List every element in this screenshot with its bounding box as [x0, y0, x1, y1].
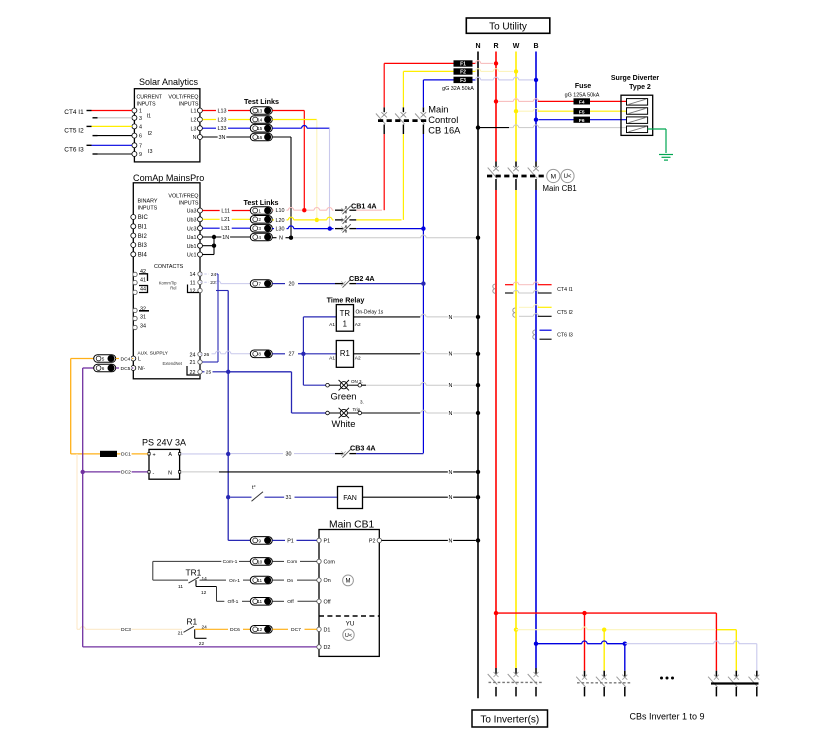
- svg-text:8: 8: [258, 352, 261, 357]
- wire L33: [202, 125, 250, 132]
- wire blue feeder row to inverters: [534, 641, 757, 671]
- motor drive M of Main CB1: [547, 169, 560, 182]
- wire L30 row: [272, 226, 425, 233]
- test link 3: [250, 224, 272, 232]
- svg-text:3N: 3N: [219, 135, 226, 141]
- svg-text:1N: 1N: [222, 235, 229, 241]
- label Main Control CB 16A: [428, 105, 461, 136]
- svg-text:Test Links: Test Links: [244, 97, 279, 106]
- svg-text:31: 31: [286, 495, 292, 501]
- svg-text:L30: L30: [276, 227, 285, 233]
- svg-text:VOLT/FREQ: VOLT/FREQ: [168, 194, 198, 200]
- wire riser yellow to Main Control CB: [402, 71, 404, 220]
- wire DC5 label: [116, 365, 134, 372]
- svg-text:A: A: [168, 452, 172, 458]
- test link 5: [94, 355, 116, 363]
- test link 1: [250, 207, 272, 215]
- svg-text:CT5 I2: CT5 I2: [64, 128, 84, 135]
- svg-text:L21: L21: [221, 217, 230, 223]
- svg-text:DC4: DC4: [121, 356, 131, 362]
- svg-text:21: 21: [190, 360, 196, 366]
- wire P2 to N: [382, 537, 481, 544]
- svg-text:BINARY: BINARY: [138, 199, 158, 205]
- svg-text:ExtendNet: ExtendNet: [162, 361, 182, 366]
- wire TR A2 to N: [354, 314, 481, 321]
- svg-text:N/-: N/-: [138, 366, 145, 372]
- svg-text:BI3: BI3: [138, 243, 148, 249]
- svg-text:34: 34: [140, 324, 146, 330]
- label Time Relay: [327, 296, 365, 305]
- pins ComAp KommTip relay 14,11,12: [188, 272, 203, 295]
- svg-text:11: 11: [257, 599, 262, 604]
- wire 27: [272, 351, 305, 358]
- svg-text:ComAp MainsPro: ComAp MainsPro: [133, 173, 204, 183]
- svg-text:41: 41: [140, 277, 146, 283]
- wire CT4 I1 pair to Solar Analytics: [64, 109, 132, 118]
- fuse F4: [574, 98, 591, 105]
- fuse F2: [454, 68, 473, 75]
- svg-text:L2: L2: [191, 118, 197, 124]
- svg-text:N: N: [279, 236, 283, 242]
- svg-text:Ub1: Ub1: [187, 244, 197, 250]
- svg-text:26: 26: [204, 352, 210, 358]
- svg-text:On-Delay 1s: On-Delay 1s: [356, 310, 384, 316]
- svg-text:I1: I1: [147, 114, 152, 120]
- wire DC7: [272, 627, 317, 634]
- current transformer CT6: [533, 330, 573, 339]
- svg-text:A1: A1: [329, 355, 335, 361]
- svg-text:A2: A2: [355, 322, 361, 328]
- svg-text:ON 3.: ON 3.: [351, 379, 363, 384]
- label Fuse gG 125A 50kA: [565, 83, 600, 99]
- svg-text:R1: R1: [340, 349, 350, 358]
- svg-text:W: W: [513, 43, 520, 50]
- wire 25 row pin22 to white feed: [202, 369, 291, 413]
- wire L11: [202, 208, 250, 215]
- svg-text:M: M: [346, 579, 351, 585]
- svg-text:L3: L3: [191, 126, 197, 132]
- svg-text:1: 1: [139, 109, 142, 115]
- label Test Links (upper bank): [244, 97, 279, 106]
- wire P1 label: [272, 537, 317, 544]
- svg-text:14: 14: [202, 576, 208, 582]
- wire B bus: [535, 52, 537, 669]
- wire F5 row: [514, 108, 627, 113]
- svg-text:CB2 4A: CB2 4A: [349, 274, 375, 283]
- svg-text:INPUTS: INPUTS: [137, 102, 157, 108]
- svg-text:Solar Analytics: Solar Analytics: [139, 77, 199, 87]
- wire F1 row: [384, 61, 498, 66]
- label Test Links (middle bank): [244, 198, 279, 207]
- wire L21: [202, 216, 250, 223]
- svg-text:VOLT/FREQ: VOLT/FREQ: [168, 95, 198, 101]
- svg-text:L13: L13: [218, 108, 227, 114]
- wire 26/27 row to R1: [200, 351, 250, 358]
- svg-text:Control: Control: [428, 115, 458, 125]
- svg-text:25: 25: [206, 370, 212, 376]
- svg-text:12: 12: [190, 289, 196, 295]
- device Solar Analytics: [134, 77, 200, 162]
- indicator lamp White (Trip): [292, 407, 481, 429]
- svg-text:N: N: [193, 135, 197, 141]
- svg-text:+: +: [153, 452, 156, 458]
- label Surge Diverter Type 2: [611, 75, 660, 91]
- wire 25 net pin12 riser: [216, 291, 228, 541]
- svg-text:5: 5: [102, 356, 105, 361]
- wire L23: [202, 117, 250, 124]
- undervoltage release U&lt; of Main CB1: [561, 169, 574, 182]
- svg-text:1: 1: [258, 208, 261, 213]
- device ComAp MainsPro: [133, 173, 204, 379]
- svg-text:11: 11: [257, 578, 262, 583]
- fuse F5: [574, 108, 591, 115]
- circuit breaker Main Control CB 16A: [376, 107, 427, 134]
- wire Off: [272, 599, 317, 606]
- svg-text:D1: D1: [324, 627, 331, 633]
- svg-text:L1: L1: [191, 109, 197, 115]
- svg-text:4: 4: [258, 235, 261, 240]
- svg-text:On-1: On-1: [229, 578, 240, 584]
- wire W bus: [515, 52, 517, 669]
- svg-text:CB1 4A: CB1 4A: [351, 201, 377, 210]
- svg-text:To Utility: To Utility: [489, 22, 527, 33]
- svg-text:P1: P1: [287, 538, 294, 544]
- svg-text:Trip: Trip: [353, 407, 361, 412]
- wire L10 row: [272, 207, 382, 214]
- svg-text:P1: P1: [324, 539, 331, 545]
- pins Main CB1 P1,Com,On,Off,D1,D2,P2: [317, 538, 382, 651]
- test link 9: [250, 537, 272, 545]
- auxiliary contact TR1: [153, 568, 251, 602]
- svg-text:7: 7: [258, 282, 261, 287]
- svg-text:Ub3: Ub3: [187, 217, 197, 223]
- circuit breaker Main CB1 (incomer): [487, 162, 547, 191]
- wire DC3 row: [77, 454, 182, 633]
- svg-text:Off: Off: [324, 599, 332, 605]
- svg-text:Green: Green: [330, 391, 356, 402]
- node B phase label: [533, 43, 538, 50]
- wire riser red to Main Control CB: [383, 63, 385, 210]
- svg-text:TR: TR: [340, 309, 351, 318]
- To Inverter(s) label box: [472, 710, 548, 727]
- svg-text:Time Relay: Time Relay: [327, 296, 365, 305]
- wire F4 row: [494, 99, 627, 104]
- svg-text:11: 11: [190, 280, 196, 286]
- svg-text:Com: Com: [287, 559, 297, 565]
- svg-text:16: 16: [257, 135, 263, 140]
- fuse F6: [574, 117, 591, 124]
- svg-text:CONTACTS: CONTACTS: [154, 264, 184, 270]
- svg-text:F5: F5: [579, 109, 585, 115]
- wire Com row: [153, 559, 251, 580]
- svg-text:6: 6: [102, 366, 105, 371]
- svg-text:AUX. SUPPLY: AUX. SUPPLY: [138, 350, 169, 355]
- circuit breaker CB Inverter 9: [708, 671, 759, 697]
- circuit breaker CB2 4A: [335, 274, 375, 288]
- svg-text:A2: A2: [355, 355, 361, 361]
- svg-text:F1: F1: [460, 62, 466, 68]
- svg-text:Surge Diverter: Surge Diverter: [611, 75, 660, 82]
- wire yellow feeder row to inverters: [514, 627, 737, 671]
- svg-text:3: 3: [258, 226, 261, 231]
- wire red feeder row to inverters: [494, 611, 717, 671]
- fuse F3: [454, 77, 473, 84]
- test link 2: [250, 216, 272, 224]
- svg-text:22: 22: [199, 641, 205, 647]
- svg-text:1: 1: [343, 320, 347, 329]
- svg-text:21: 21: [178, 631, 184, 637]
- svg-text:B: B: [533, 43, 538, 50]
- svg-text:Main: Main: [428, 105, 448, 115]
- svg-text:Ua1: Ua1: [187, 235, 197, 241]
- svg-text:44: 44: [140, 287, 146, 293]
- svg-text:DC1: DC1: [121, 452, 131, 458]
- svg-text:9: 9: [139, 152, 142, 158]
- wire R bus: [495, 52, 497, 669]
- wire riser blue to Main Control CB: [422, 80, 424, 453]
- wire 24 net pin14 to pin21: [202, 274, 218, 362]
- svg-text:L31: L31: [221, 226, 230, 232]
- svg-text:20: 20: [289, 282, 295, 288]
- pins Solar Analytics current inputs 1,3,4,6,7,9: [132, 108, 142, 158]
- wire 20: [272, 281, 335, 288]
- svg-text:INPUTS: INPUTS: [138, 206, 158, 212]
- ellipsis dots: [660, 677, 674, 680]
- wire test link 16 to neutral riser: [272, 137, 293, 240]
- indicator lamp Green (ON): [303, 379, 480, 405]
- wire CB2 output to blue riser: [356, 281, 425, 285]
- wire F6 row: [534, 118, 627, 122]
- svg-text:30: 30: [286, 452, 292, 458]
- svg-text:N: N: [449, 352, 453, 358]
- svg-text:CB 16A: CB 16A: [428, 126, 461, 136]
- svg-text:L20: L20: [276, 218, 285, 224]
- fuse F1: [454, 60, 473, 67]
- svg-text:FAN: FAN: [343, 495, 357, 502]
- ground symbol: [659, 155, 673, 161]
- svg-text:N: N: [449, 315, 453, 321]
- svg-text:9: 9: [258, 538, 261, 543]
- test link 7: [250, 280, 272, 288]
- svg-text:Type 2: Type 2: [629, 84, 651, 91]
- svg-text:R: R: [493, 43, 498, 50]
- svg-text:27: 27: [289, 352, 295, 358]
- svg-text:M: M: [551, 173, 556, 180]
- svg-text:L10: L10: [276, 208, 285, 214]
- svg-text:24: 24: [190, 352, 196, 358]
- wire P1 row: [228, 539, 250, 541]
- svg-text:BI2: BI2: [138, 234, 148, 240]
- surge diverter Type 2: [621, 95, 653, 135]
- wire CB3 output up to blue riser: [356, 453, 423, 455]
- svg-text:N: N: [449, 383, 453, 389]
- svg-text:L: L: [138, 357, 141, 363]
- current transformer CT5: [513, 305, 573, 318]
- svg-text:BI1: BI1: [138, 225, 148, 231]
- svg-text:CURRENT: CURRENT: [137, 95, 163, 101]
- svg-text:3.: 3.: [360, 400, 364, 405]
- svg-text:2: 2: [258, 217, 261, 222]
- svg-text:14: 14: [190, 272, 196, 278]
- wire 1N with Ub1 Uc1 ties: [202, 234, 250, 254]
- wire F3 row: [423, 77, 538, 82]
- svg-text:4: 4: [139, 125, 142, 131]
- svg-text:Test Links: Test Links: [244, 198, 279, 207]
- To Utility label box: [466, 18, 550, 33]
- svg-text:On: On: [287, 578, 294, 584]
- svg-text:13: 13: [257, 108, 263, 113]
- svg-text:DC7: DC7: [291, 627, 301, 633]
- svg-text:CT6 I3: CT6 I3: [557, 333, 573, 339]
- svg-text:N: N: [449, 495, 453, 501]
- svg-text:Ua3: Ua3: [187, 209, 197, 215]
- svg-text:On: On: [324, 578, 331, 584]
- wire L20 row: [272, 217, 401, 224]
- svg-text:DC6: DC6: [230, 627, 240, 633]
- svg-text:Fuse: Fuse: [575, 83, 591, 90]
- wire D2 purple row: [83, 646, 317, 648]
- svg-text:gG 125A 50kA: gG 125A 50kA: [565, 93, 600, 99]
- svg-text:10: 10: [257, 559, 263, 564]
- fan FAN: [338, 487, 363, 509]
- test link 15: [250, 124, 272, 132]
- svg-text:24: 24: [211, 272, 217, 278]
- svg-text:White: White: [332, 418, 356, 429]
- svg-text:F6: F6: [579, 118, 585, 124]
- wire Off row: [217, 599, 251, 606]
- svg-text:Rel: Rel: [170, 286, 176, 291]
- svg-text:U<: U<: [345, 633, 352, 639]
- svg-text:14: 14: [257, 117, 263, 122]
- svg-text:INPUTS: INPUTS: [179, 102, 199, 108]
- wire FAN to N: [363, 494, 481, 501]
- node W phase label: [513, 43, 520, 50]
- svg-text:Com: Com: [324, 560, 336, 566]
- svg-text:N: N: [449, 470, 453, 476]
- wire PS N output to N bus: [181, 469, 480, 476]
- test link 10: [250, 558, 272, 566]
- svg-text:Uc1: Uc1: [187, 253, 197, 259]
- pins ComAp contacts 42,41,44,32,31,34: [133, 269, 149, 330]
- circuit breaker CB1 4A: [335, 201, 377, 234]
- power supply PS 24V 3A: [142, 438, 186, 480]
- svg-text:12: 12: [257, 627, 263, 632]
- wire DC4 orange: [71, 359, 94, 454]
- svg-text:-: -: [153, 471, 155, 477]
- wire 3N: [202, 134, 250, 141]
- svg-text:t°: t°: [252, 485, 256, 491]
- wire Com: [272, 559, 317, 566]
- svg-text:3: 3: [139, 116, 142, 122]
- device Main CB1 control box: [319, 520, 379, 657]
- wire DC4 label: [116, 356, 134, 363]
- wire L13: [202, 108, 250, 115]
- wire F2 row: [403, 69, 518, 74]
- wire N bus: [477, 52, 479, 699]
- label Main CB1: [543, 184, 577, 193]
- svg-text:F4: F4: [579, 100, 585, 106]
- test link 11: [250, 576, 272, 584]
- wire L31: [202, 225, 250, 232]
- svg-text:I3: I3: [148, 149, 153, 155]
- test link 16: [250, 133, 272, 141]
- svg-text:YU: YU: [346, 621, 355, 628]
- svg-text:7: 7: [139, 143, 142, 149]
- wire surge neutral row: [476, 125, 627, 130]
- wire 23/20 row to CB2: [200, 271, 250, 286]
- svg-text:CT4 I1: CT4 I1: [64, 109, 84, 116]
- svg-text:CT4 I1: CT4 I1: [557, 287, 573, 293]
- svg-text:gG 32A 50kA: gG 32A 50kA: [442, 86, 474, 92]
- svg-text:BIC: BIC: [138, 215, 149, 221]
- svg-text:CT5 I2: CT5 I2: [557, 310, 573, 316]
- test link 11b: [250, 598, 272, 606]
- pins ComAp binary inputs BIC..BI4: [131, 215, 149, 259]
- svg-text:L33: L33: [218, 126, 227, 132]
- svg-text:L11: L11: [221, 208, 230, 214]
- wire DC5 purple: [83, 368, 94, 647]
- wire CT6 I3 pair to Solar Analytics: [64, 145, 132, 154]
- svg-text:N: N: [449, 538, 453, 544]
- svg-text:Main CB1: Main CB1: [329, 520, 374, 531]
- svg-text:Com-1: Com-1: [223, 559, 238, 565]
- svg-text:U<: U<: [564, 174, 572, 180]
- svg-text:Uc3: Uc3: [187, 226, 197, 232]
- circuit breaker CB Inverter 1: [576, 671, 632, 697]
- label gG 32A 50kA: [442, 86, 474, 92]
- svg-text:15: 15: [257, 126, 263, 131]
- svg-text:N: N: [168, 470, 172, 476]
- svg-text:11: 11: [178, 584, 183, 590]
- wire R1 A2 to N: [354, 351, 481, 358]
- pins ComAp aux supply L, N/-, 24,21,22: [131, 352, 202, 376]
- test link 8: [250, 350, 272, 358]
- svg-text:N: N: [475, 43, 480, 50]
- svg-text:12: 12: [201, 590, 207, 596]
- svg-text:DC3: DC3: [121, 627, 131, 633]
- svg-text:Main CB1: Main CB1: [543, 184, 577, 193]
- pins Solar Analytics volt/freq inputs L1,L2,L3,N: [191, 108, 203, 141]
- circuit breaker CB3 4A: [335, 444, 376, 458]
- wire DC2: [81, 469, 148, 476]
- test link 14: [250, 116, 272, 124]
- test link 4: [250, 233, 272, 241]
- wire 27 to R1 A1: [303, 353, 336, 355]
- wire TR A1 feed: [303, 317, 336, 385]
- svg-text:P2: P2: [369, 539, 376, 545]
- wire CT5 I2 pair to Solar Analytics: [64, 126, 132, 135]
- svg-text:A1: A1: [329, 322, 335, 328]
- svg-text:BI4: BI4: [138, 253, 148, 259]
- svg-text:To Inverter(s): To Inverter(s): [480, 714, 539, 725]
- label CBs Inverter 1 to 9: [629, 712, 704, 722]
- wire 30 row CB3: [231, 451, 336, 458]
- wire test link 14 to yellow riser: [272, 120, 319, 223]
- test link 6: [94, 364, 116, 372]
- wire test link 13 to red riser: [272, 111, 306, 213]
- svg-text:6: 6: [139, 134, 142, 140]
- svg-text:DC2: DC2: [121, 470, 131, 476]
- fuse on DC1: [71, 451, 148, 458]
- svg-text:DC5: DC5: [121, 366, 131, 372]
- svg-text:31: 31: [140, 315, 146, 321]
- node R phase label: [493, 43, 498, 50]
- svg-text:N: N: [449, 411, 453, 417]
- current transformer CT4: [493, 282, 573, 293]
- svg-text:F3: F3: [460, 78, 466, 84]
- svg-text:INPUTS: INPUTS: [179, 201, 199, 207]
- svg-text:L23: L23: [218, 117, 227, 123]
